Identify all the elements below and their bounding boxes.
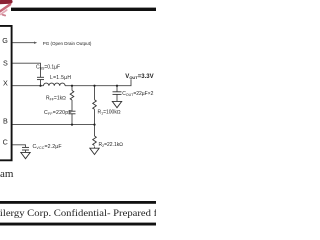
wire VOUT line after inductor — [65, 79, 131, 85]
svg-text:CFF=220pF: CFF=220pF — [44, 110, 72, 116]
inductor L1 — [44, 83, 66, 86]
wire LX to inductor — [13, 85, 44, 87]
wire R1-R2 branch — [94, 86, 96, 149]
svg-text:COUT=22µF×2: COUT=22µF×2 — [122, 91, 153, 97]
node dot at R1/R2 FB rail — [93, 124, 95, 126]
svg-text:C: C — [3, 138, 8, 147]
svg-text:CVCC=2.2µF: CVCC=2.2µF — [33, 144, 62, 150]
wire COUT branch — [116, 86, 118, 102]
capacitor COUT — [113, 92, 122, 95]
resistor R2 — [93, 136, 97, 145]
svg-text:R2=22.1kΩ: R2=22.1kΩ — [99, 142, 124, 148]
node dot at RFF branch — [71, 85, 73, 87]
node dot at RFF/FB rail — [71, 124, 73, 126]
ground at CVCC — [21, 152, 30, 158]
wire BS — [13, 63, 41, 77]
ground at R2 — [90, 148, 99, 154]
svg-text:VOUT=3.3V: VOUT=3.3V — [125, 74, 153, 80]
resistor RFF — [70, 91, 74, 101]
node dot at R1 branch — [93, 85, 95, 87]
wire FB rail — [13, 124, 95, 126]
wire CBS bottom to LX — [40, 80, 42, 86]
node dot at COUT branch — [116, 85, 118, 87]
svg-text:B: B — [3, 116, 8, 125]
IC U1 (partial, cut at left edge) — [0, 26, 12, 160]
svg-text:L=1.5µH: L=1.5µH — [50, 75, 71, 81]
svg-text:PG (Open Drain Output): PG (Open Drain Output) — [43, 41, 92, 46]
capacitor CBS — [37, 77, 44, 79]
capacitor CFF — [69, 111, 76, 114]
node dot at CBS/LX — [39, 85, 41, 87]
capacitor CVCC — [22, 147, 29, 150]
footer rule upper — [0, 201, 156, 204]
svg-text:RFF=1kΩ: RFF=1kΩ — [46, 95, 66, 101]
top rule — [11, 8, 156, 11]
svg-text:am: am — [0, 168, 14, 180]
svg-text:S: S — [3, 59, 8, 68]
wire PG — [13, 42, 35, 44]
footer rule lower — [0, 223, 156, 226]
wire RFF branch — [71, 86, 73, 125]
ground at COUT — [112, 101, 121, 107]
svg-text:R1=100kΩ: R1=100kΩ — [98, 109, 121, 115]
svg-text:CBS=0.1µF: CBS=0.1µF — [36, 64, 60, 70]
svg-text:X: X — [3, 78, 8, 87]
svg-text:Silergy Corp. Confidential- Pr: Silergy Corp. Confidential- Prepared for — [0, 208, 156, 219]
svg-text:G: G — [2, 36, 8, 45]
wire VCC — [13, 145, 26, 153]
resistor R1 — [93, 100, 97, 110]
arrowhead PG output — [34, 42, 37, 44]
